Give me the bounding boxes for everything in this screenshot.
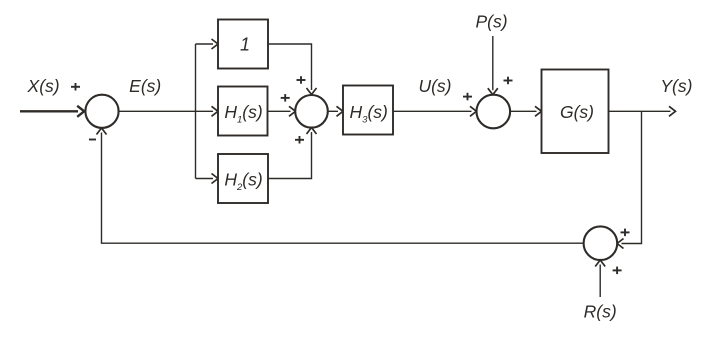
svg-text:Y(s): Y(s) — [660, 76, 692, 96]
block H2(s) — [218, 154, 268, 203]
svg-text:H3(s): H3(s) — [350, 102, 388, 126]
svg-text:E(s): E(s) — [129, 76, 161, 96]
summing junction S2 — [295, 95, 328, 128]
wire: S3 output to G with arrow — [510, 110, 536, 112]
wire: feedback from S4 left back to S1 bottom with arrow — [102, 133, 584, 244]
wire: branch to block 1 with arrow — [196, 43, 214, 45]
wire: H2 output to summer S2 bottom — [268, 132, 312, 179]
wire: branch vertical at x=195.5 — [195, 44, 197, 179]
block "1" — [218, 20, 268, 69]
wire: G output to Y(s) arrow — [609, 110, 671, 112]
svg-text:1: 1 — [240, 35, 250, 55]
plus sign at S2 bottom input — [295, 136, 304, 144]
plus sign at S1 left input — [71, 83, 80, 91]
svg-text:U(s): U(s) — [418, 76, 451, 96]
plus sign at S4 right input — [621, 229, 630, 237]
plus sign at S2 left input — [281, 94, 290, 102]
wire: output branch down to summer S4 with arrow — [622, 111, 642, 243]
wire: S1 output to H1 with arrow — [119, 110, 213, 112]
wire: bold input arrow into summer S1 — [20, 106, 84, 117]
svg-text:P(s): P(s) — [475, 11, 507, 31]
plus sign at S2 top input — [297, 76, 306, 84]
wire: P(s) input down into summer S3 with arrow — [492, 36, 494, 90]
wire: H1 output to summer S2 left — [268, 110, 291, 112]
wire: S2 output to H3 with arrow — [328, 110, 338, 112]
summing junction S3 — [477, 95, 511, 129]
svg-text:H2(s): H2(s) — [224, 169, 262, 193]
plus sign at S3 left input — [463, 93, 472, 101]
wire: H3 output to summer S3 with arrow — [393, 110, 472, 112]
svg-text:R(s): R(s) — [584, 302, 617, 322]
summing junction S1 — [85, 95, 118, 128]
block H3(s) — [343, 86, 393, 135]
block H1(s) — [218, 87, 268, 136]
wire: branch to block H2 with arrow — [196, 178, 214, 180]
wire: block 1 output to summer S2 top — [268, 44, 312, 90]
summing junction S4 — [584, 226, 618, 260]
wire: R(s) input up into summer S4 with arrow — [599, 265, 601, 298]
svg-text:H1(s): H1(s) — [224, 102, 262, 126]
plus sign at S4 bottom input — [613, 267, 622, 275]
svg-text:G(s): G(s) — [560, 102, 594, 122]
block G(s) — [542, 70, 609, 154]
minus sign at S1 bottom input — [89, 139, 96, 141]
plus sign at S3 top input — [504, 77, 513, 85]
svg-text:X(s): X(s) — [27, 76, 60, 96]
